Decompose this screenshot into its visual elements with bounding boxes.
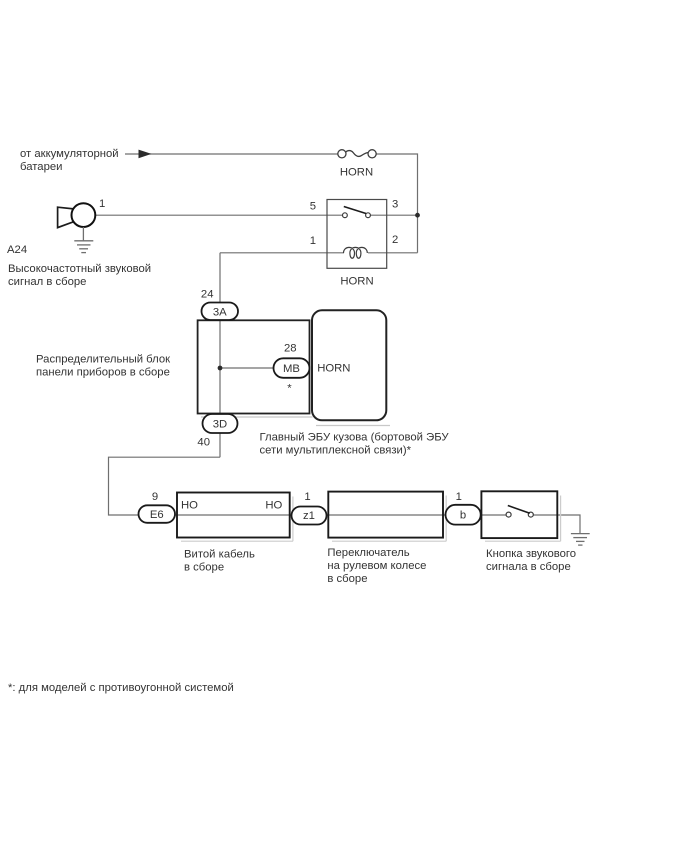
- wire: down-left to E6: [109, 457, 507, 515]
- svg-text:в сборе: в сборе: [184, 561, 224, 573]
- shadow horn button box: [485, 496, 561, 542]
- spiral cable box: [177, 493, 290, 538]
- svg-text:E6: E6: [150, 509, 164, 521]
- svg-text:A24: A24: [7, 244, 27, 256]
- relay HORN box: [310, 199, 399, 288]
- svg-text:z1: z1: [303, 510, 315, 522]
- svg-text:*: *: [287, 383, 292, 395]
- connector b: [446, 491, 481, 525]
- wire: relay coil row pin1 left: [220, 252, 344, 254]
- relay coil: [344, 247, 368, 258]
- wire: relay pin3 to vertical: [370, 214, 418, 216]
- svg-text:Распределительный блок: Распределительный блок: [36, 354, 170, 366]
- svg-text:2: 2: [392, 234, 398, 246]
- svg-text:MB: MB: [283, 363, 300, 375]
- wire: vertical from relay pin1 down through junction block: [219, 253, 221, 457]
- wire: horn switch to ground: [533, 515, 580, 533]
- svg-text:Переключатель: Переключатель: [327, 547, 409, 559]
- svg-text:на рулевом колесе: на рулевом колесе: [327, 560, 426, 572]
- horn A24: [58, 198, 106, 228]
- svg-text:5: 5: [310, 201, 316, 213]
- svg-text:сигнала в сборе: сигнала в сборе: [486, 561, 571, 573]
- shadow ECU box: [316, 425, 390, 427]
- svg-text:3D: 3D: [213, 419, 227, 431]
- junction block: [198, 320, 310, 413]
- svg-text:3: 3: [392, 199, 398, 211]
- ECU rounded box: [312, 310, 386, 420]
- svg-text:3A: 3A: [213, 306, 227, 318]
- shadow spiral box: [181, 497, 293, 542]
- svg-text:1: 1: [304, 491, 310, 503]
- svg-text:Витой кабель: Витой кабель: [184, 548, 255, 560]
- button contact circles: [506, 512, 511, 517]
- svg-text:сети мультиплексной связи)*: сети мультиплексной связи)*: [260, 445, 412, 457]
- svg-text:HORN: HORN: [340, 276, 373, 288]
- wire: battery feed to fuse: [125, 153, 338, 155]
- svg-text:сигнал в сборе: сигнал в сборе: [8, 276, 86, 288]
- svg-text:Высокочастотный звуковой: Высокочастотный звуковой: [8, 263, 151, 275]
- relay contact circles: [343, 213, 348, 218]
- svg-text:b: b: [460, 510, 466, 522]
- button blade: [508, 506, 530, 514]
- shadow steering box: [332, 496, 446, 542]
- connector E6: [139, 491, 176, 523]
- svg-text:HORN: HORN: [317, 363, 350, 375]
- svg-text:24: 24: [201, 289, 214, 301]
- ground at horn: [74, 227, 93, 253]
- wire: horn to relay pin5: [96, 214, 343, 216]
- svg-text:*: для моделей с противоугонно: *: для моделей с противоугонной системой: [8, 682, 234, 694]
- connector 3A: [201, 289, 238, 321]
- svg-text:батареи: батареи: [20, 161, 62, 173]
- connector MB: [274, 343, 310, 395]
- svg-text:28: 28: [284, 343, 297, 355]
- svg-text:панели приборов в сборе: панели приборов в сборе: [36, 367, 170, 379]
- svg-text:НО: НО: [181, 500, 198, 512]
- wire: fuse to right corner, down to relay: [376, 154, 418, 253]
- connector 3D: [197, 414, 237, 448]
- svg-text:HORN: HORN: [340, 167, 373, 179]
- svg-text:Кнопка звукового: Кнопка звукового: [486, 548, 576, 560]
- wire: MB branch: [220, 367, 274, 369]
- arrow: from battery: [139, 150, 152, 159]
- ground at horn button: [571, 534, 590, 546]
- svg-text:1: 1: [310, 235, 316, 247]
- svg-text:НО: НО: [265, 500, 282, 512]
- shadow junction block: [201, 416, 313, 418]
- wire: relay coil row pin2 right: [368, 252, 418, 254]
- node: junction at MB branch: [218, 366, 223, 371]
- svg-text:9: 9: [152, 491, 158, 503]
- svg-text:в сборе: в сборе: [327, 573, 367, 585]
- svg-text:1: 1: [456, 491, 462, 503]
- node: junction at pin3: [415, 213, 420, 218]
- horn button box: [481, 491, 557, 538]
- svg-text:от аккумуляторной: от аккумуляторной: [20, 148, 119, 160]
- relay blade: [344, 207, 366, 214]
- connector z1: [292, 491, 327, 525]
- steering wheel switch box: [328, 492, 443, 538]
- svg-text:40: 40: [197, 436, 210, 448]
- svg-text:1: 1: [99, 198, 105, 210]
- svg-text:Главный ЭБУ кузова (бортовой Э: Главный ЭБУ кузова (бортовой ЭБУ: [260, 432, 450, 444]
- fuse HORN: [338, 150, 376, 179]
